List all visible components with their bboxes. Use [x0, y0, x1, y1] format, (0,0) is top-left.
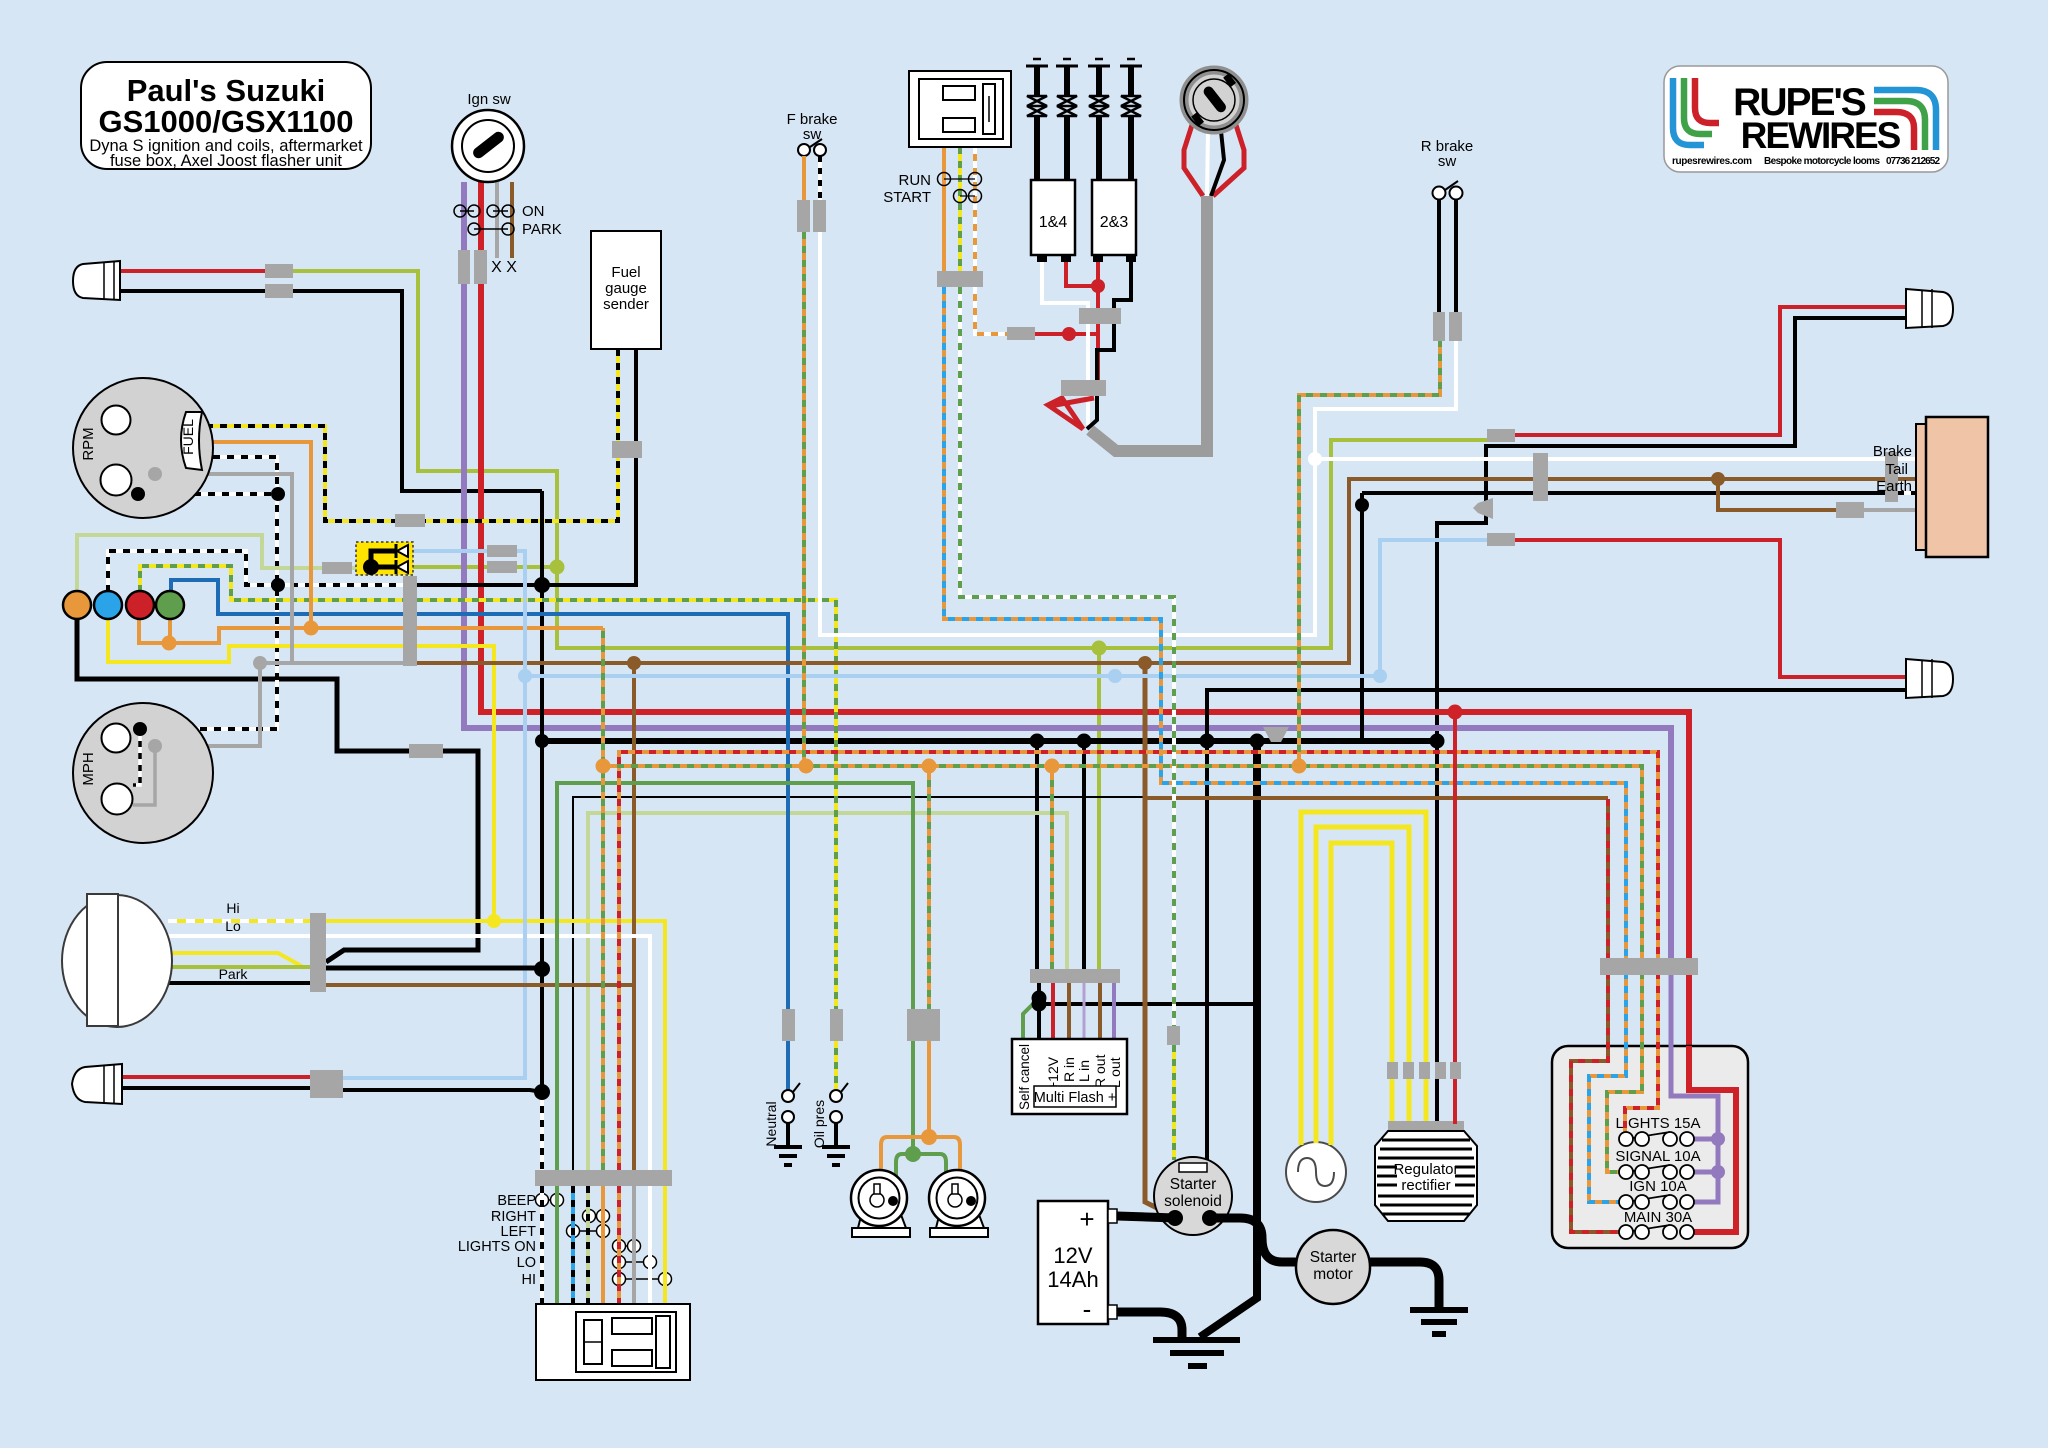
wire ign purple main [464, 182, 1671, 958]
svg-text:MAIN 30A: MAIN 30A [1624, 1209, 1692, 1226]
svg-text:sw: sw [1438, 153, 1457, 170]
wire pale green handlebar y813 [588, 813, 1067, 1170]
tail light [1916, 424, 1926, 550]
wire orange gauge vertical x311 [197, 442, 311, 628]
wire lime vertical to flasher bar R out [1097, 648, 1101, 969]
svg-text:2&3: 2&3 [1100, 214, 1129, 231]
svg-text:Hi: Hi [226, 900, 239, 916]
front-left indicator lamp [72, 1064, 122, 1104]
fuse internal feeds [1571, 958, 1658, 1232]
svg-text:Fuel: Fuel [611, 264, 640, 281]
svg-text:Lo: Lo [225, 918, 241, 934]
svg-text:FUEL: FUEL [180, 419, 196, 455]
wire brown/red drop to fuse [1606, 799, 1610, 958]
wire instrument black bus y585 TC1 to 542 [417, 583, 542, 587]
conn ign red [474, 250, 487, 284]
wire sky bus y674 [525, 540, 1489, 676]
wire brown bus y660 [417, 479, 1917, 663]
svg-text:07736 212652: 07736 212652 [1886, 156, 1940, 167]
conn flasher lime [487, 561, 517, 573]
wire headlamp Lo [168, 934, 311, 938]
wire kill yellow-green upper [958, 147, 962, 271]
conn tail tall [1885, 452, 1898, 502]
svg-text:Brake: Brake [1873, 443, 1912, 460]
svg-text:1&4: 1&4 [1039, 214, 1068, 231]
wire dashed y585 to TC1 [277, 583, 403, 587]
alternator [1286, 1142, 1346, 1202]
svg-text:START: START [883, 189, 931, 206]
svg-text:rectifier: rectifier [1401, 1177, 1450, 1194]
wire front-left black to earth dot [343, 1090, 542, 1092]
svg-text:Multi Flash +: Multi Flash + [1034, 1090, 1117, 1106]
wire front-right indicator red [120, 269, 293, 273]
indicator dots [63, 591, 91, 619]
svg-text:LIGHTS 15A: LIGHTS 15A [1615, 1115, 1700, 1132]
conn solenoid wire [1167, 1026, 1180, 1045]
headlamp [62, 894, 248, 1027]
wire brown handlebar x634 [632, 663, 636, 1170]
wire orange bus y628 [139, 618, 603, 643]
svg-text:RIGHT: RIGHT [491, 1209, 536, 1225]
spark plugs [1026, 59, 1142, 180]
wire black x1207 to solenoid [1205, 741, 1209, 1162]
wire front-left lamp red [122, 1075, 311, 1079]
svg-text:LIGHTS ON: LIGHTS ON [458, 1239, 536, 1255]
conn headlamp [310, 913, 326, 992]
wire black earth vertical x542 [540, 491, 544, 1092]
conn ign purple [458, 250, 470, 284]
svg-text:SIGNAL 10A: SIGNAL 10A [1615, 1148, 1700, 1165]
conn oil [830, 1009, 843, 1041]
wire orange-green horn drop [927, 766, 931, 1010]
conn earth y751 [409, 744, 443, 758]
wire blue neutral net [171, 580, 788, 1090]
conn front-right black [265, 284, 293, 298]
wire brown solenoid x1145 [1145, 663, 1177, 1218]
conn fusebox feed [1600, 958, 1698, 975]
wire orange horn arms [881, 1041, 929, 1170]
svg-text:Regulator: Regulator [1393, 1161, 1458, 1178]
coil 1&4 [1031, 180, 1075, 255]
wire kill orange upper [942, 147, 946, 271]
conn coil lower [1061, 380, 1106, 396]
conn rear-right [1487, 429, 1515, 442]
wire orange-blue bus y783 [944, 287, 1626, 958]
wire rear-right black [1437, 318, 1906, 1124]
starter motor earth cable [1370, 1262, 1439, 1308]
wire black bus y1004 flasher to solenoid trunk [1039, 1002, 1257, 1006]
svg-text:motor: motor [1313, 1266, 1353, 1283]
horn left [851, 1170, 910, 1237]
F brake switch [787, 111, 838, 200]
wire fuel sender black [542, 349, 636, 585]
starter solenoid [1154, 1157, 1232, 1235]
wire earth dashes into tail [1897, 491, 1918, 495]
wire rear-left red [1515, 540, 1906, 677]
wire earth black vertical x1362 [1360, 493, 1364, 741]
svg-text:Paul's Suzuki: Paul's Suzuki [127, 73, 326, 108]
multi flash unit [1012, 983, 1127, 1114]
red regulator wire [1453, 712, 1457, 1124]
conn coil mid [1079, 308, 1121, 324]
wire red coil link [1035, 332, 1098, 336]
wire orange-green flasher drop [1050, 766, 1054, 969]
svg-text:-: - [1083, 1294, 1092, 1324]
svg-text:sender: sender [603, 296, 649, 313]
svg-text:R out: R out [1092, 1054, 1108, 1088]
wire black thin y797 [573, 797, 1257, 1170]
svg-text:solenoid: solenoid [1164, 1193, 1222, 1210]
wire headlamp earth pin [168, 981, 311, 985]
handlebar switch labels and contacts [458, 1193, 672, 1288]
conn flasher sky [487, 545, 517, 557]
conn horns [907, 1009, 940, 1041]
svg-text:Self cancel: Self cancel [1017, 1044, 1032, 1110]
conn flasher bar [1030, 969, 1120, 983]
conn F brake b [813, 200, 826, 232]
wire orange green-dot drop [168, 618, 172, 643]
wire ign brown stub [510, 182, 514, 258]
neutral switch [763, 1083, 802, 1165]
fuses [1619, 1132, 1694, 1239]
svg-text:R in: R in [1061, 1057, 1077, 1082]
svg-text:BEEP: BEEP [497, 1193, 536, 1209]
conn R brake b [1449, 312, 1462, 341]
ground starter [1410, 1310, 1468, 1334]
wire kill orange-white upper [975, 147, 1008, 334]
wire front-left lamp black [122, 1086, 311, 1090]
wire ign gray stub [495, 182, 499, 258]
svg-text:Bespoke motorcycle looms: Bespoke motorcycle looms [1764, 156, 1880, 167]
wire white Lo net [326, 936, 650, 1170]
conn TC1 trunk [403, 576, 417, 666]
ground battery [1153, 1340, 1240, 1366]
wire rear-right red [1515, 307, 1906, 435]
R brake switch [1421, 138, 1474, 312]
wire orange-red bus y752 [619, 752, 1658, 1170]
svg-text:IGN 10A: IGN 10A [1629, 1178, 1687, 1195]
svg-text:Ign sw: Ign sw [467, 91, 511, 108]
rear-right indicator lamp [1906, 289, 1953, 328]
conn yellow-black y521 [395, 514, 425, 527]
wire dashed blue-dot loop top [108, 551, 278, 592]
svg-text:L out: L out [1107, 1057, 1123, 1088]
conn gray trunk T [1263, 727, 1289, 742]
wire yellow Hi link y922 [326, 921, 665, 1170]
coil red wires [1066, 262, 1098, 286]
conn mid tail tall [1533, 453, 1548, 501]
conn neutral [782, 1009, 795, 1041]
conn front-left red [310, 1070, 343, 1085]
spade earth terminal [1473, 498, 1493, 519]
wire orange-green F brake drop [802, 232, 806, 766]
svg-text:Starter: Starter [1170, 1176, 1217, 1193]
wire ign red main [481, 182, 1689, 1046]
svg-text:REWIRES: REWIRES [1741, 115, 1901, 156]
wire orange-green R brake drop [1299, 340, 1440, 766]
horn right [929, 1170, 988, 1237]
wire headlamp park lime [168, 965, 311, 969]
handlebar switch wires below bar [542, 1186, 665, 1304]
battery [1038, 1201, 1117, 1324]
svg-text:Neutral: Neutral [763, 1101, 779, 1146]
wire indicator earth chain [77, 592, 478, 962]
dyna S pickup connector [1184, 70, 1244, 196]
svg-text:Tail: Tail [1885, 461, 1908, 478]
conn palegreen flasher [322, 562, 352, 574]
wire gray tail stub [1864, 508, 1917, 512]
svg-text:gauge: gauge [605, 280, 647, 297]
red main feed inside fusebox [1687, 1046, 1736, 1232]
svg-text:L in: L in [1076, 1060, 1092, 1082]
battery positive cable [1117, 1216, 1175, 1218]
wire headlamp park yellow [168, 953, 305, 968]
wire headlamp brown after conn [326, 983, 634, 987]
wire sky flasher to front-left [343, 551, 525, 1078]
svg-text:ON: ON [522, 203, 545, 220]
svg-text:rupesrewires.com: rupesrewires.com [1672, 156, 1752, 167]
svg-text:RPM: RPM [80, 427, 97, 460]
wire fuel sender yellow/black to fuel gauge [202, 349, 618, 521]
conn coil primary [1007, 327, 1035, 340]
wire headlamp Hi dashed [168, 919, 311, 923]
conn front-right red [265, 264, 293, 278]
svg-text:LO: LO [517, 1255, 536, 1271]
svg-text:GS1000/GSX1100: GS1000/GSX1100 [98, 104, 353, 139]
wire gray bus y660 [260, 661, 417, 665]
wire gray MPH link y746 [155, 663, 260, 746]
conn regulator yellows and dc [1387, 1062, 1398, 1079]
svg-text:Oil pres: Oil pres [811, 1100, 827, 1148]
wire yellow bus y646 [108, 618, 494, 921]
coil white wire [1042, 262, 1088, 425]
svg-text:HI: HI [522, 1272, 537, 1288]
wire dashed instrument vertical x277 [140, 457, 277, 729]
conn rear-left [1487, 533, 1515, 546]
svg-text:12V: 12V [1053, 1243, 1092, 1268]
battery negative cable [1117, 1312, 1182, 1338]
conn front-left black [310, 1083, 343, 1098]
wire dashed rpm internal vertical [136, 424, 140, 494]
svg-text:14Ah: 14Ah [1047, 1267, 1098, 1292]
solenoid to starter motor cable [1210, 1218, 1296, 1262]
coil black wire [1087, 262, 1131, 429]
svg-text:+: + [1079, 1204, 1094, 1234]
MPH gauge [73, 703, 213, 843]
regulator rectifier [1375, 1121, 1477, 1221]
wire yellow-green solenoid stub [1172, 1045, 1176, 1160]
gray trunk [1090, 196, 1207, 451]
wire white F-brake to brake bus [820, 232, 1456, 635]
wire pale green dot loop [77, 535, 371, 592]
rear-left indicator lamp [1906, 659, 1953, 698]
svg-text:Earth: Earth [1876, 478, 1912, 495]
wire yellow-green oil net [140, 566, 836, 1090]
wire orange-green bus y767 [601, 628, 605, 1170]
svg-text:+12V: +12V [1045, 1056, 1061, 1090]
svg-text:X X: X X [491, 259, 517, 276]
conn R brake a [1433, 312, 1445, 341]
oil pressure switch [811, 1083, 850, 1165]
title box [81, 62, 371, 169]
conn handlebar bar [535, 1170, 672, 1186]
starter motor [1296, 1230, 1370, 1304]
wire front-right indicator black [120, 291, 542, 491]
wire black flasher +12 below bar [1037, 983, 1041, 1039]
red spade arrow [1048, 398, 1083, 429]
svg-text:MPH: MPH [80, 752, 97, 785]
wire green horn arms [896, 1154, 913, 1176]
wire white brake bus to tail [1315, 457, 1917, 461]
wire black flasher verticals [1035, 741, 1039, 969]
wire gray RPM net [130, 424, 292, 663]
conn fuel sender [612, 441, 642, 458]
flasher relay yellow box [356, 542, 413, 575]
logo Rupe's Rewires [1664, 66, 1948, 172]
conn F brake a [797, 200, 810, 232]
svg-text:PARK: PARK [522, 221, 562, 238]
conn tail gray low [1836, 502, 1864, 518]
wire headlamp black y968 [326, 966, 542, 971]
wire brown bus y799 [1145, 796, 1608, 800]
svg-text:Starter: Starter [1310, 1249, 1357, 1266]
front-right indicator lamp [73, 261, 120, 300]
coil 2&3 [1092, 180, 1136, 255]
alternator yellow wires [1301, 812, 1426, 1145]
wire lime turn R: front conn to rear-right lamp [293, 271, 1489, 648]
wire lime flasher R-out stub [408, 565, 557, 569]
wire rear-left black down x1207 [1207, 690, 1906, 741]
purple feed inside fusebox [1671, 958, 1718, 1202]
wire black x1257 thick to ground [1200, 741, 1257, 1337]
svg-text:Park: Park [219, 966, 249, 982]
handlebar switch housing [536, 1304, 690, 1380]
svg-text:fuse box, Axel Joost flasher u: fuse box, Axel Joost flasher unit [110, 152, 342, 170]
wire black bus thick y741 [542, 738, 1437, 744]
ignition switch [452, 91, 562, 276]
svg-text:LEFT: LEFT [501, 1224, 537, 1240]
wire earth black bus to tail [1362, 491, 1886, 495]
RPM gauge [73, 378, 213, 518]
conn kill switch [937, 271, 983, 287]
fuse box [1552, 958, 1748, 1248]
kill switch assembly [883, 71, 1011, 206]
wire white-green kill to solenoid [960, 287, 1174, 1026]
wire dashed rpm bottom bulb y494 [138, 492, 277, 496]
svg-text:RUN: RUN [899, 172, 932, 189]
fuel gauge sender box [591, 231, 661, 349]
wire brown tail drop [1718, 479, 1864, 510]
wire green horn net [557, 783, 913, 1170]
